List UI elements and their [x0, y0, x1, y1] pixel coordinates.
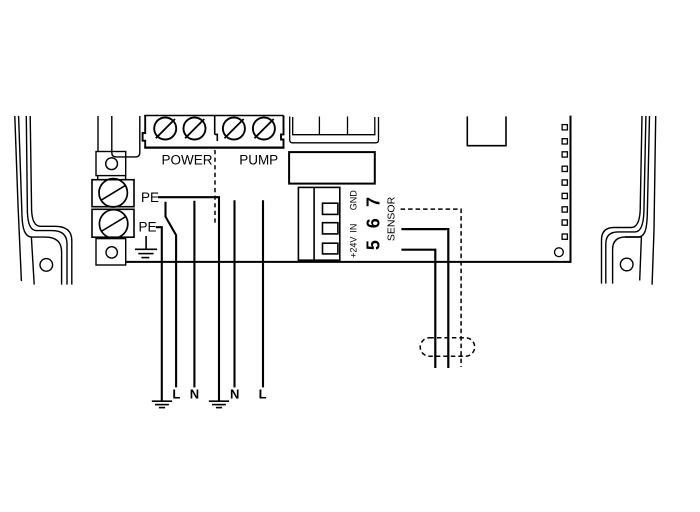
svg-text:PE: PE	[141, 190, 159, 205]
svg-text:IN: IN	[349, 224, 359, 233]
svg-text:L: L	[259, 386, 267, 401]
svg-text:N: N	[190, 386, 199, 401]
svg-text:N: N	[230, 386, 239, 401]
svg-text:L: L	[172, 386, 180, 401]
svg-text:PE: PE	[138, 220, 156, 235]
svg-text:PUMP: PUMP	[239, 153, 278, 168]
svg-text:6: 6	[364, 218, 384, 228]
svg-text:POWER: POWER	[161, 153, 212, 168]
svg-text:GND: GND	[349, 190, 359, 211]
svg-text:+24V: +24V	[349, 237, 359, 258]
svg-text:7: 7	[364, 197, 384, 207]
svg-text:5: 5	[364, 240, 384, 250]
svg-text:SENSOR: SENSOR	[386, 196, 398, 241]
